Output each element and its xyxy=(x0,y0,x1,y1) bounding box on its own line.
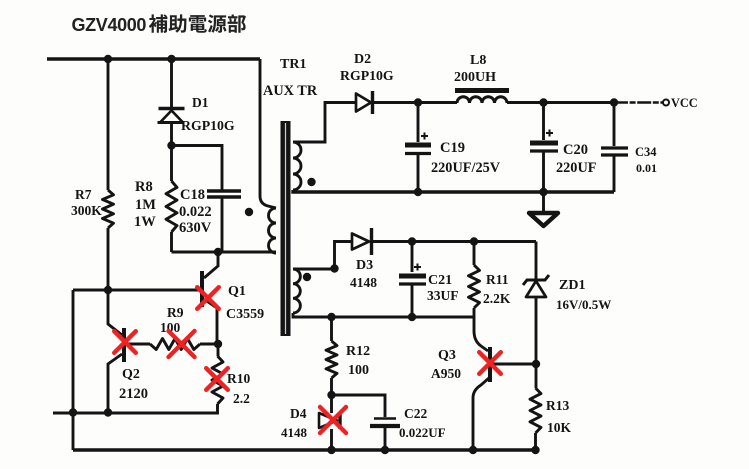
svg-text:RGP10G: RGP10G xyxy=(181,118,235,133)
svg-text:33UF: 33UF xyxy=(427,288,459,303)
svg-text:220UF: 220UF xyxy=(556,160,597,176)
red X on Q3 xyxy=(479,352,501,374)
node Q2e-rail xyxy=(104,408,112,416)
resistor R13 10K xyxy=(535,364,538,388)
svg-text:300K: 300K xyxy=(71,203,102,218)
svg-text:D1: D1 xyxy=(192,95,209,110)
svg-text:C19: C19 xyxy=(440,140,465,156)
svg-text:R10: R10 xyxy=(227,371,250,386)
svg-text:200UH: 200UH xyxy=(454,70,496,85)
node D1-R8-C18 xyxy=(167,141,175,149)
capacitor C19 220UF/25V xyxy=(417,103,420,143)
svg-text:220UF/25V: 220UF/25V xyxy=(431,160,501,176)
resistor R9 100 xyxy=(150,339,200,350)
svg-text:C21: C21 xyxy=(428,273,452,288)
svg-text:D2: D2 xyxy=(354,52,371,67)
title CJK 補助電源部 xyxy=(149,14,246,32)
node D2-C19 xyxy=(414,98,422,106)
wire top rail xyxy=(47,57,260,60)
svg-text:C18: C18 xyxy=(180,187,205,203)
node L8-C20 xyxy=(539,98,547,106)
aux winding xyxy=(293,269,300,313)
capacitor C34 0.01 xyxy=(613,103,616,147)
node Q1e-R9-R10 xyxy=(214,340,222,348)
svg-text:0.01: 0.01 xyxy=(636,161,657,175)
capacitor C20 220UF xyxy=(542,103,545,141)
svg-text:R9: R9 xyxy=(167,305,184,320)
svg-text:10K: 10K xyxy=(547,420,572,435)
capacitor C21 33UF xyxy=(411,242,414,273)
svg-text:C20: C20 xyxy=(563,142,588,158)
wire secondary top lead xyxy=(293,103,356,143)
svg-text:C22: C22 xyxy=(404,406,427,421)
svg-text:R7: R7 xyxy=(75,187,92,202)
resistor R10 2.2 xyxy=(217,344,220,356)
node top-D1 xyxy=(167,55,175,63)
wire aux bottom rail xyxy=(293,313,474,317)
node R12-C22-D4 xyxy=(327,391,335,399)
resistor R11 2.2K xyxy=(473,242,476,266)
svg-text:R8: R8 xyxy=(135,179,153,195)
svg-text:GZV4000: GZV4000 xyxy=(72,15,147,35)
svg-text:0.022: 0.022 xyxy=(179,204,212,220)
node D3-R11 xyxy=(470,237,478,245)
svg-text:2.2K: 2.2K xyxy=(483,291,511,306)
wire to L8 xyxy=(418,101,457,104)
svg-text:R13: R13 xyxy=(546,398,569,413)
svg-text:16V/0.5W: 16V/0.5W xyxy=(556,297,611,312)
svg-text:1W: 1W xyxy=(134,214,156,230)
svg-text:RGP10G: RGP10G xyxy=(340,68,394,83)
svg-text:R12: R12 xyxy=(346,344,370,359)
capacitor C18 0.022 630V xyxy=(172,146,223,191)
svg-text:630V: 630V xyxy=(179,220,212,236)
transformer core xyxy=(281,121,291,336)
wire secondary bottom rail xyxy=(293,190,614,192)
transistor Q3 A950 xyxy=(474,317,488,351)
VCC terminal xyxy=(663,100,669,106)
node ZD1-R13-Q3 xyxy=(532,360,540,368)
red X on R9 xyxy=(169,331,195,357)
zener ZD1 16V/0.5W xyxy=(535,242,538,280)
svg-text:R11: R11 xyxy=(486,272,509,287)
node R7-Q2 xyxy=(104,286,112,294)
bottom rail xyxy=(73,448,536,452)
svg-text:4148: 4148 xyxy=(350,275,377,290)
svg-text:Q2: Q2 xyxy=(122,367,140,382)
svg-text:ZD1: ZD1 xyxy=(559,278,585,293)
node C34 top xyxy=(610,98,618,106)
red X on R10 xyxy=(206,368,228,390)
node D3-C21 xyxy=(408,237,416,245)
svg-text:A950: A950 xyxy=(431,366,461,381)
transistor Q1 C3559 xyxy=(204,252,218,278)
red X on Q2 xyxy=(114,331,136,353)
red X on Q1 xyxy=(197,287,219,309)
svg-text:2120: 2120 xyxy=(119,386,148,402)
diode D3 4148 xyxy=(352,234,369,250)
svg-text:VCC: VCC xyxy=(671,96,698,110)
wire aux top lead xyxy=(293,242,352,270)
secondary phase dot xyxy=(307,178,315,186)
svg-text:1M: 1M xyxy=(135,197,156,213)
svg-text:D3: D3 xyxy=(356,258,373,273)
svg-text:4148: 4148 xyxy=(281,425,308,440)
wire clamp bottom to primary xyxy=(172,251,277,254)
left box vertical xyxy=(72,290,75,450)
svg-text:0.022UF: 0.022UF xyxy=(399,425,446,440)
svg-text:C3559: C3559 xyxy=(226,307,264,322)
svg-text:D4: D4 xyxy=(290,406,307,421)
diode D2 RGP10G xyxy=(356,94,371,112)
red X on D4 xyxy=(320,407,346,433)
node top-R7 xyxy=(104,55,112,63)
wire primary drop xyxy=(260,59,276,208)
resistor R7 xyxy=(107,59,110,190)
diode D1 RGP10G xyxy=(170,59,173,108)
svg-text:100: 100 xyxy=(348,363,369,378)
svg-text:Q1: Q1 xyxy=(228,284,246,299)
svg-text:Q3: Q3 xyxy=(438,348,456,363)
transistor Q2 2120 xyxy=(108,290,122,335)
resistor R12 100 xyxy=(330,317,333,341)
diode D4 4148 xyxy=(330,395,333,413)
svg-text:TR1: TR1 xyxy=(280,57,306,72)
svg-text:C34: C34 xyxy=(635,145,657,159)
svg-text:L8: L8 xyxy=(470,53,486,68)
primary phase dot xyxy=(245,208,253,216)
node leftbox-rail xyxy=(69,408,77,416)
secondary winding xyxy=(293,142,301,190)
aux phase dot xyxy=(303,273,311,281)
inductor L8 200UH xyxy=(455,88,509,93)
primary winding xyxy=(269,208,276,253)
svg-text:2.2: 2.2 xyxy=(233,391,250,406)
svg-text:AUX TR: AUX TR xyxy=(263,83,318,99)
capacitor C22 0.022UF xyxy=(332,395,386,417)
wire Q1 base xyxy=(73,289,200,292)
ground xyxy=(542,192,545,212)
resistor R8 1M 1W xyxy=(170,146,173,182)
